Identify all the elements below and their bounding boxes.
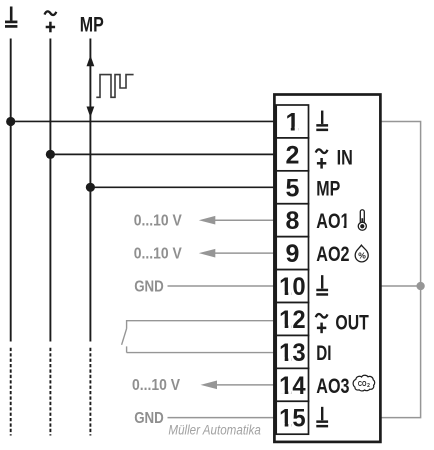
svg-text:0...10 V: 0...10 V bbox=[134, 213, 183, 230]
svg-text:1: 1 bbox=[285, 108, 299, 136]
svg-text:AO3: AO3 bbox=[316, 374, 349, 398]
svg-text:AO2: AO2 bbox=[316, 242, 349, 266]
svg-text:14: 14 bbox=[279, 372, 306, 400]
svg-text:Müller Automatika: Müller Automatika bbox=[168, 422, 261, 437]
svg-text:5: 5 bbox=[285, 174, 299, 202]
svg-text:GND: GND bbox=[134, 410, 164, 427]
svg-text:AO1: AO1 bbox=[316, 209, 349, 233]
svg-text:2: 2 bbox=[367, 383, 370, 389]
svg-text:MP: MP bbox=[316, 177, 340, 201]
svg-text:MP: MP bbox=[80, 13, 104, 36]
svg-text:9: 9 bbox=[285, 240, 299, 268]
svg-text:15: 15 bbox=[279, 405, 306, 433]
svg-text:OUT: OUT bbox=[335, 310, 368, 334]
svg-text:%: % bbox=[358, 251, 366, 261]
svg-text:0...10 V: 0...10 V bbox=[134, 245, 183, 262]
svg-text:8: 8 bbox=[285, 207, 299, 235]
svg-text:CO: CO bbox=[358, 381, 367, 388]
svg-text:GND: GND bbox=[134, 278, 164, 295]
svg-text:10: 10 bbox=[279, 273, 306, 301]
svg-text:IN: IN bbox=[337, 146, 353, 170]
svg-text:13: 13 bbox=[279, 339, 306, 367]
svg-text:DI: DI bbox=[316, 341, 331, 365]
svg-text:0...10 V: 0...10 V bbox=[132, 377, 181, 394]
svg-text:2: 2 bbox=[285, 141, 299, 169]
svg-text:12: 12 bbox=[279, 306, 306, 334]
